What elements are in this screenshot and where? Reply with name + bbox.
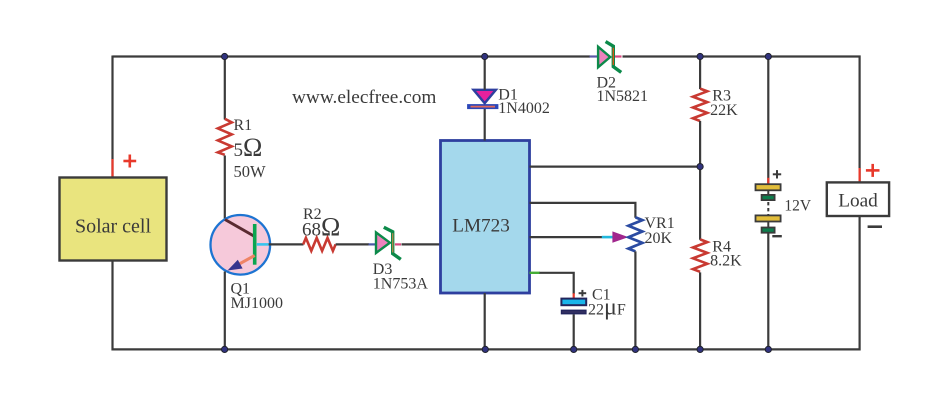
node load plus sign <box>866 164 880 177</box>
diode D3 zener 1N753A <box>376 227 401 259</box>
wire top rail pink stub at D2 cathode <box>615 55 622 57</box>
wire LM723 pin2 to VR1 top <box>530 203 636 218</box>
node junction top rail D1 <box>482 53 488 59</box>
transistor Q1 emitter arrow <box>228 260 243 271</box>
wire R2 to D3 <box>336 243 369 245</box>
node junction top rail R1 <box>222 53 228 59</box>
wire LM723 bottom pin to rail <box>484 293 486 349</box>
svg-text:MJ1000: MJ1000 <box>231 295 283 312</box>
battery B1 12V <box>756 184 781 233</box>
node junction bottom rail C1 <box>571 346 577 352</box>
wire red tick C1 positive lead <box>573 293 575 298</box>
wire LM723 top pin to D1 <box>484 109 486 141</box>
wire LM723 pin3 wiper <box>530 236 603 238</box>
svg-text:LM723: LM723 <box>452 216 510 237</box>
node junction top rail battery <box>765 53 771 59</box>
wire base cyan stub <box>257 243 269 246</box>
svg-text:12V: 12V <box>784 198 812 215</box>
svg-text:Solar cell: Solar cell <box>75 216 152 238</box>
svg-text:1N5821: 1N5821 <box>597 88 649 105</box>
potentiometer VR1 wiper arrow <box>612 231 628 242</box>
wire R3 bottom to pin1 node <box>699 121 701 167</box>
node junction bottom rail R4 <box>697 346 703 352</box>
wire bottom rail <box>113 216 860 350</box>
svg-text:1N753A: 1N753A <box>373 275 429 292</box>
wire top rail left segment <box>113 55 591 57</box>
solar cell panel <box>60 178 167 261</box>
resistor R2 <box>303 238 335 251</box>
wire C1 bottom to rail <box>573 314 575 349</box>
wire VR1 bottom to rail <box>634 251 636 349</box>
node battery plus sign <box>773 170 781 178</box>
node junction top rail R3 <box>697 53 703 59</box>
wire R1 bottom to transistor collector <box>224 156 226 221</box>
transistor Q1 collector stroke <box>225 220 255 237</box>
wire battery bottom to rail <box>767 233 769 350</box>
wire LM723 green pin stub <box>530 272 541 274</box>
wire top rail indigo stub at D2 anode <box>590 55 598 57</box>
wire LM723 pin1 to R3 node <box>530 166 701 168</box>
node junction bottom rail Q1 <box>222 346 228 352</box>
diode D1 1N4002 <box>467 90 498 109</box>
wire green pin to C1 <box>540 273 574 294</box>
node junction bottom rail LM723 <box>482 346 488 352</box>
node load minus sign <box>868 225 882 228</box>
transistor Q1 emitter stroke <box>232 256 255 269</box>
node junction bottom rail battery <box>765 346 771 352</box>
node C1 plus sign <box>579 290 587 297</box>
load block <box>827 182 889 216</box>
node battery minus sign <box>772 235 782 237</box>
transistor Q1 body <box>211 215 271 275</box>
node solar plus sign <box>123 155 136 168</box>
wire red tick battery positive <box>767 178 769 184</box>
svg-text:R1: R1 <box>234 117 253 134</box>
wire blue stub at D3 anode <box>369 243 376 245</box>
node junction bottom rail VR1 <box>632 346 638 352</box>
wire red tick load positive <box>858 168 860 182</box>
wire top rail right segment with corner down to Load <box>623 57 860 184</box>
wire R4 bottom to rail <box>699 272 701 349</box>
label VR1 20K <box>645 215 675 247</box>
wire pin1 node down to R4 <box>699 167 701 240</box>
svg-text:50W: 50W <box>234 162 267 181</box>
label D2 1N5821 <box>597 75 649 106</box>
label R3 22K <box>710 88 738 119</box>
svg-text:22K: 22K <box>710 102 738 119</box>
svg-text:8.2K: 8.2K <box>710 253 742 270</box>
label D3 1N753A <box>373 261 429 292</box>
label D1 1N4002 <box>498 87 550 117</box>
wire pink stub at D3 cathode <box>395 243 401 245</box>
node junction pin1 R3 R4 <box>697 164 703 170</box>
svg-text:1N4002: 1N4002 <box>498 100 550 117</box>
resistor R1 <box>218 119 232 155</box>
svg-text:Load: Load <box>838 191 878 212</box>
wire red tick solar cell positive lead <box>111 159 113 177</box>
wire base to R2 <box>269 243 304 245</box>
wire D1 anode to top rail <box>484 56 486 90</box>
wire R3 branch from top rail <box>699 57 701 90</box>
op-amp U1 LM723 regulator <box>441 141 530 294</box>
potentiometer VR1 resistive element <box>628 217 642 251</box>
capacitor C1 <box>561 299 587 315</box>
resistor R3 <box>693 89 707 121</box>
wire R1 branch from top rail <box>224 57 226 120</box>
label R1 5ohm 50W <box>234 117 267 181</box>
label R4 8.2K <box>710 238 742 269</box>
svg-text:www.elecfree.com: www.elecfree.com <box>292 87 436 108</box>
wire solar cell bottom drop <box>111 261 113 351</box>
label Q1 MJ1000 <box>231 281 283 313</box>
resistor R4 <box>693 239 707 271</box>
transistor Q1 base bar <box>253 224 257 265</box>
label R2 68ohm <box>302 206 340 242</box>
wire left drop from rail to solar cell <box>111 56 113 178</box>
label C1 22uF <box>588 287 626 321</box>
wire transistor emitter to bottom rail <box>224 272 226 350</box>
svg-text:20K: 20K <box>645 230 673 247</box>
wire battery top lead <box>767 57 769 185</box>
wire cyan wiper stub <box>602 236 614 239</box>
diode D2 schottky 1N5821 <box>598 42 621 73</box>
wire D3 to LM723 <box>402 243 442 245</box>
